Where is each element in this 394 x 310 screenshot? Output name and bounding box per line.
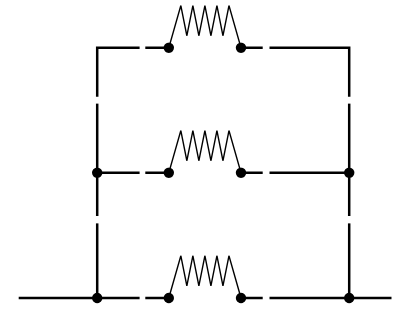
wire right rail middle segment xyxy=(348,104,351,216)
node left rail middle junction xyxy=(92,168,102,178)
node R1 right terminal xyxy=(236,43,246,53)
resistor R3 xyxy=(169,256,241,298)
wire left rail middle segment xyxy=(96,104,99,216)
node R2 right terminal xyxy=(236,168,246,178)
node R3 left terminal xyxy=(164,293,174,303)
resistor R1 xyxy=(169,6,241,48)
wire top-right corner segment xyxy=(270,48,350,97)
wire top-left corner segment xyxy=(97,48,139,97)
node R1 left terminal xyxy=(164,43,174,53)
resistor R2 xyxy=(169,131,241,173)
node right rail bottom junction xyxy=(344,293,354,303)
node right rail middle junction xyxy=(344,168,354,178)
wire bottom row right lead xyxy=(270,297,392,300)
wire bottom row left stub to R3 xyxy=(145,297,169,300)
wire right rail lower segment xyxy=(348,223,351,298)
wire middle row to right rail xyxy=(270,172,350,175)
wire middle row left stub to R2 xyxy=(145,172,169,175)
wire top row right stub from R1 xyxy=(241,47,263,50)
wire top row left stub to R1 xyxy=(145,47,169,50)
wire middle row from left rail xyxy=(97,172,139,175)
wire bottom row left lead xyxy=(19,297,140,300)
wire middle row right stub from R2 xyxy=(241,172,263,175)
node left rail bottom junction xyxy=(92,293,102,303)
wire left rail lower segment xyxy=(96,223,99,298)
node R3 right terminal xyxy=(236,293,246,303)
wire bottom row right stub from R3 xyxy=(241,297,263,300)
node R2 left terminal xyxy=(164,168,174,178)
